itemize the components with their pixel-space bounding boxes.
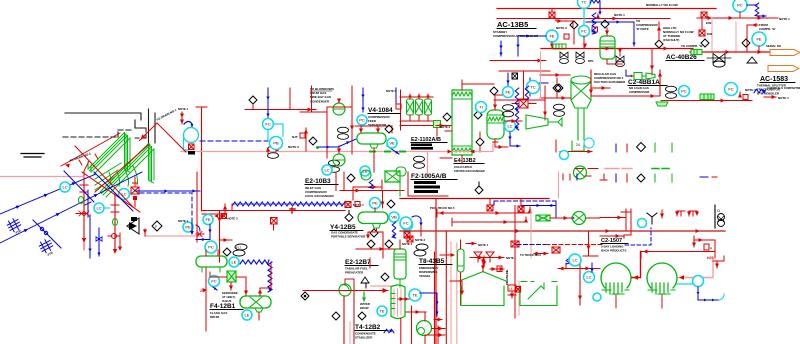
wire red bottom manifold <box>400 120 436 122</box>
svg-text:COOL EXCHANGER: COOL EXCHANGER <box>305 194 334 198</box>
wire red note1 right <box>697 16 790 21</box>
wire blue zig diag <box>387 146 399 154</box>
legend diamond <box>637 143 646 152</box>
pump t8 green circle <box>417 321 432 336</box>
red elbow top right of basins <box>558 263 600 271</box>
red arrow note1 row2 <box>764 95 789 100</box>
vent triangle <box>361 277 369 283</box>
red globe valve small <box>108 234 120 239</box>
blue elbow small <box>184 122 193 128</box>
wire red vessel top from header <box>495 95 512 103</box>
wire blue arrows y147 <box>316 139 356 149</box>
instrument bubble 2nd <box>402 220 413 231</box>
wire red top manifold <box>400 97 436 126</box>
red EH small + note <box>214 214 238 221</box>
legend ticks row <box>600 174 672 182</box>
valve diamond right of V4 <box>385 125 393 133</box>
svg-text:NOTE 3: NOTE 3 <box>556 26 567 30</box>
instrument bubble PC mid <box>503 87 514 98</box>
red arrow x662 <box>660 210 664 218</box>
filter vessel 1 <box>407 94 414 121</box>
label F2-1005A/B <box>411 173 457 180</box>
svg-text:LE: LE <box>245 313 250 318</box>
svg-text:E2-10B3: E2-10B3 <box>305 178 331 185</box>
inline mixer green <box>553 44 566 49</box>
svg-text:AC-13B5: AC-13B5 <box>497 20 528 29</box>
instrument tags stack <box>329 160 340 172</box>
svg-text:PC: PC <box>208 245 214 250</box>
svg-text:FE: FE <box>205 217 210 222</box>
wire red col bottom <box>440 155 462 163</box>
wire red loop y213 <box>437 207 532 217</box>
valve diamond lower <box>476 132 484 152</box>
wire red drop under F4 <box>205 268 207 331</box>
wire red vert x400 <box>400 90 402 130</box>
wire red vert x306 w arrow <box>304 128 308 151</box>
wire red drop x219 <box>218 211 222 263</box>
wire red backslash diagonal long <box>75 146 133 207</box>
red risers t4 <box>344 285 354 344</box>
instrument bubble FE <box>546 30 558 42</box>
wire red vert x545 <box>543 86 547 120</box>
sump pump circle cyan <box>184 128 199 151</box>
legend red bits <box>556 140 592 160</box>
svg-text:FE: FE <box>549 34 554 39</box>
svg-text:E30: E30 <box>706 21 712 25</box>
instrument bubble left-mid <box>203 215 213 225</box>
wire red drop x84 <box>80 172 88 250</box>
svg-text:VE: VE <box>389 141 395 146</box>
label F4-12B1 <box>210 303 243 319</box>
blue elbow x410 <box>412 216 423 226</box>
svg-text:F: F <box>155 225 157 229</box>
instrument bubble LC a <box>60 182 70 192</box>
svg-text:H20: H20 <box>707 256 713 260</box>
green circle top <box>361 170 371 180</box>
tank sphere 2 <box>647 263 677 308</box>
svg-text:STABILIZER: STABILIZER <box>355 336 373 340</box>
basin 2 walls <box>520 282 557 306</box>
vessel kerosene drum w X <box>240 296 271 320</box>
instrument bubble LC under B <box>322 165 332 175</box>
instrument bubble TI <box>476 102 487 113</box>
svg-text:PE: PE <box>185 225 191 230</box>
butterfly valve pair <box>560 52 595 64</box>
svg-text:TO TRUCK NO.2: TO TRUCK NO.2 <box>520 253 541 257</box>
svg-text:NOTE 1: NOTE 1 <box>779 17 790 21</box>
green pump ellipse a <box>79 197 84 204</box>
wire blue from PC <box>747 3 766 18</box>
label C2-1507 <box>601 238 628 253</box>
wire red lower nozzle <box>540 96 571 100</box>
blue dashed loop <box>625 228 651 245</box>
wire pink long line y151 <box>181 142 498 176</box>
svg-text:LC: LC <box>62 185 67 190</box>
cyan bubble x575 <box>569 254 581 266</box>
svg-text:LE: LE <box>232 260 237 265</box>
wire red header y198 <box>400 198 549 200</box>
wire blue drop x363 <box>361 88 364 112</box>
instrument bubble TE t4 <box>377 306 387 316</box>
green arrow water draw <box>360 284 370 310</box>
wire blue signal from TC <box>590 0 602 15</box>
wire blue zig col2 <box>525 86 529 100</box>
label V4-1084 <box>368 107 400 127</box>
off-page connector orange 2 <box>768 66 799 72</box>
svg-text:TC: TC <box>530 85 535 90</box>
vessel Y4-12B5 <box>358 208 388 228</box>
instrument bubble LB <box>360 166 370 176</box>
svg-text:F4-12B1: F4-12B1 <box>210 303 236 310</box>
valve diamond above drum <box>601 20 609 28</box>
black control valve filled <box>127 218 139 234</box>
wire pink stub y176 <box>0 176 84 178</box>
wire blue dashed y244 <box>517 244 604 246</box>
instrument tags x421 <box>414 244 428 256</box>
instrument bubble FC <box>579 26 590 37</box>
pump circle green right <box>550 212 600 225</box>
red vent stack <box>178 107 189 124</box>
svg-text:C2-4BB1A: C2-4BB1A <box>628 79 660 86</box>
wire blue dashed y201 <box>494 201 556 206</box>
blue tick f4 <box>213 287 217 290</box>
green pump ellipse b <box>113 219 118 226</box>
svg-text:FC: FC <box>728 87 733 92</box>
svg-text:NOTE 3: NOTE 3 <box>288 145 299 149</box>
red LEO box <box>508 285 516 298</box>
wire red y71 <box>499 70 550 72</box>
wire red drum outlet <box>495 139 508 149</box>
red sample brackets <box>675 211 699 216</box>
red arrows to truck <box>520 252 548 258</box>
cyan bubble x589 <box>584 272 595 283</box>
svg-text:F2-1005A/B: F2-1005A/B <box>411 173 447 180</box>
instrument tags pair <box>414 156 425 168</box>
svg-text:FC: FC <box>403 221 408 226</box>
wire blue corner branch <box>33 220 61 248</box>
red EH tracer boxes under header <box>487 199 524 213</box>
basin 1 walls <box>461 286 504 306</box>
wire red rack vert x460 <box>435 252 461 344</box>
wire blue signal left of drum <box>592 13 596 34</box>
wire blue zig x371 <box>369 180 373 188</box>
vessel V4-1084 drum <box>357 133 386 172</box>
svg-text:TO DRAIN NO.1: TO DRAIN NO.1 <box>156 108 178 122</box>
svg-text:VESSEL: VESSEL <box>419 274 431 278</box>
wire red y217 stub <box>600 216 626 220</box>
red jog under header2 <box>556 19 573 28</box>
wire pink rack vert x450 <box>450 242 452 344</box>
trench channel 3 partial <box>95 163 121 190</box>
text block F2 (solid bars) <box>414 181 440 193</box>
column E4-13B2 <box>452 90 472 155</box>
wire blue tag elbow <box>626 70 633 77</box>
valve diamond mid2 <box>474 111 482 119</box>
svg-text:T8-43B5: T8-43B5 <box>419 258 445 265</box>
text block regular gas compressor <box>594 72 626 84</box>
reducer cone green <box>526 115 562 129</box>
svg-text:LC: LC <box>507 124 512 129</box>
red X-box above vessel <box>512 99 536 108</box>
svg-text:TI: TI <box>479 105 483 110</box>
wire red vert x515 w 3C0 <box>511 206 519 319</box>
wire blue drop x268 <box>266 88 269 118</box>
off-page connector orange <box>766 44 800 56</box>
legend blue tick <box>615 144 617 152</box>
svg-text:PORTABLE SEPARATOR: PORTABLE SEPARATOR <box>331 235 366 239</box>
instrument bubble LC mid <box>505 121 516 132</box>
wire red cooler header y48 <box>541 47 620 51</box>
svg-text:NOTE 3: NOTE 3 <box>228 217 239 221</box>
wire red y187 <box>353 180 382 191</box>
svg-text:E30: E30 <box>707 32 713 36</box>
instrument tags pair 2 <box>666 86 677 98</box>
wire blue backslash diagonals <box>64 171 133 211</box>
label E4-13B2 <box>454 158 486 173</box>
blue zig x568 <box>566 258 570 264</box>
wire red return y210 <box>202 208 345 213</box>
wire blue zig t4 <box>384 329 394 333</box>
basin 1 roof <box>459 258 506 282</box>
triangle vent <box>747 57 757 63</box>
wire blue manifold left <box>499 34 546 56</box>
label AC-13B5 <box>493 20 539 38</box>
instrument tags pair <box>554 104 565 116</box>
blue drain tag 2 <box>38 238 54 257</box>
instrument tags under PB <box>268 146 279 158</box>
svg-text:LC: LC <box>324 168 329 173</box>
red EH box chain end <box>345 202 364 208</box>
wire red loop y222 <box>452 217 528 226</box>
svg-text:FC: FC <box>265 122 270 127</box>
instrument tags FL2 <box>233 244 247 256</box>
wire red row2 <box>661 99 752 103</box>
wire blue from LC <box>508 132 520 148</box>
wire red long vertical x202 <box>196 107 220 211</box>
instrument bubble LC c <box>119 189 130 200</box>
wire blue chain from LE <box>240 260 272 292</box>
label T4-12B2 <box>355 324 388 340</box>
exchanger E2-10B3 circle B <box>300 86 354 166</box>
wire red vertical drops <box>702 12 740 52</box>
wire pink feed y286 <box>371 285 392 287</box>
wire red main y290 <box>303 288 388 293</box>
trench channel 2 (green isometric) <box>100 144 154 198</box>
svg-text:COMPRESSOR: COMPRESSOR <box>629 90 649 94</box>
wire pink vert x531 <box>530 209 532 258</box>
valve diamond left of Y4 <box>345 211 353 222</box>
svg-text:TE: TE <box>379 309 384 314</box>
filter vessel 2 <box>416 94 423 121</box>
svg-text:NOTE 2: NOTE 2 <box>402 242 413 246</box>
svg-text:NORMALLY NO FLOW: NORMALLY NO FLOW <box>646 3 678 7</box>
svg-text:NJT: NJT <box>292 135 298 139</box>
top connections E2-12B4 <box>336 172 404 208</box>
svg-text:TE: TE <box>412 293 417 298</box>
pump circle green e27 <box>339 284 351 296</box>
red tag 2-0 <box>200 288 207 293</box>
legend green ticks <box>655 143 672 152</box>
text chemicals compartment <box>767 86 800 90</box>
wire red vert x421 <box>420 226 422 236</box>
valve diamond top x351 <box>347 174 355 182</box>
svg-text:DRAW: DRAW <box>360 306 369 310</box>
red tick marks on pink line <box>266 147 276 155</box>
red drop into basin1 <box>450 281 464 295</box>
colour ticks top right <box>563 174 591 180</box>
wire red manifold y100 <box>494 99 545 101</box>
valve diamond open mid <box>152 221 162 231</box>
svg-text:PICK TRUCK NO.5: PICK TRUCK NO.5 <box>430 206 455 210</box>
instrument bubble FE right <box>752 32 766 52</box>
vessel suction scrubber tower <box>571 76 591 140</box>
red EH box under pump <box>189 144 195 150</box>
note1 arrow row <box>613 13 626 21</box>
label underline AC40B26 <box>666 60 704 62</box>
instrument bubble PE <box>178 219 193 232</box>
wire red drop to cooler line <box>550 36 587 48</box>
cyan tubing loop <box>268 124 283 140</box>
svg-text:4YR: 4YR <box>47 250 55 257</box>
svg-text:G: G <box>717 208 720 213</box>
cyan link to red drop <box>104 207 110 209</box>
svg-text:NOTE 1: NOTE 1 <box>614 13 625 17</box>
valve diamond right <box>742 39 750 47</box>
instrument bubble PROB <box>270 137 283 150</box>
valve diamond x312 <box>309 137 317 145</box>
ground symbol green <box>656 101 668 107</box>
wire blue drop from FE <box>196 225 212 242</box>
wire blue t8 <box>420 293 442 322</box>
red X-box 2nd <box>516 287 521 293</box>
red EH note2 right <box>402 232 413 246</box>
red drain line V <box>140 123 182 147</box>
red piping t8 pump <box>398 297 445 344</box>
instrument bubble LE drum2 <box>242 310 252 320</box>
red piping under Y4 <box>366 229 383 258</box>
red riser right of drum2 <box>258 262 271 296</box>
wire blue chain y204 <box>232 202 345 206</box>
wire red header2 y18 <box>497 18 670 20</box>
exchanger E2-10B3 circle A <box>327 99 352 116</box>
svg-text:(FAN SHUT): (FAN SHUT) <box>663 38 679 42</box>
red feed into pot <box>440 253 455 257</box>
wire red manifold over vessel <box>355 126 392 133</box>
wire blue vertical x88 <box>85 190 91 217</box>
svg-text:LC: LC <box>96 206 101 211</box>
vessel E2-12B7 tube <box>394 240 406 287</box>
green control valve box <box>227 271 236 290</box>
column T4-12B2 (green w pink trays) <box>391 285 405 319</box>
svg-text:T4-12B2: T4-12B2 <box>355 324 381 331</box>
red funnel valves <box>474 252 494 262</box>
instrument bubble near V4 <box>357 115 367 125</box>
red arrow up x598 <box>596 14 600 19</box>
legend green chair <box>572 138 594 151</box>
label Y4-12B5 <box>330 224 366 239</box>
wire pink vert x519 <box>518 281 520 315</box>
black tag EXD <box>131 217 137 221</box>
wire red right edge bits <box>386 88 401 109</box>
red X-box x270 <box>271 218 278 231</box>
svg-text:PC: PC <box>681 89 687 94</box>
svg-text:RACK PRODUCTS: RACK PRODUCTS <box>601 249 626 253</box>
PSV red symbol <box>131 177 139 207</box>
wire red recycle U frame <box>589 70 662 98</box>
inline mixer green left <box>691 50 702 55</box>
wire red tower outlet <box>591 86 610 90</box>
svg-text:NOTE 3: NOTE 3 <box>386 89 397 93</box>
wire blue zig col1 <box>515 88 519 130</box>
wire red drop x115 <box>111 194 119 254</box>
svg-text:DPL: DPL <box>588 59 594 63</box>
wire blue dashed y141 <box>200 140 268 142</box>
instrument bubble left-mid2 <box>205 241 217 253</box>
black meter vertical <box>715 205 725 228</box>
instrument bubble f4 b <box>209 276 220 287</box>
svg-text:FE: FE <box>505 90 510 95</box>
trench outlet curves green <box>109 166 138 186</box>
tank sphere 1 <box>601 263 631 308</box>
label AC-1583 <box>757 76 795 96</box>
green stub left margin <box>399 180 401 196</box>
wire blue zig under VB <box>392 222 396 238</box>
trench channel 1 (green isometric) <box>88 133 130 175</box>
drop valve w bowtie <box>616 49 625 67</box>
wire blue drop x99 <box>96 228 102 256</box>
wire red vert x440 <box>435 199 437 344</box>
red box EH <box>564 34 569 39</box>
cyan bubble x406 <box>400 217 412 229</box>
svg-text:PREHEATER: PREHEATER <box>345 271 364 275</box>
cyan bubble x642 <box>638 219 647 228</box>
svg-text:LC: LC <box>586 275 591 280</box>
red piping f4 <box>210 272 248 295</box>
wire red riser from header <box>650 49 654 76</box>
wire red main line y52 <box>690 50 770 54</box>
svg-text:AC-40B26: AC-40B26 <box>666 54 697 61</box>
svg-text:DRAINLINE: DRAINLINE <box>505 270 509 285</box>
svg-text:FC: FC <box>581 29 586 34</box>
svg-text:E2-12B7: E2-12B7 <box>345 259 371 266</box>
red box E30 lower <box>699 30 713 36</box>
red vert x580 <box>578 265 582 305</box>
black flag x512 <box>512 73 518 79</box>
valve diamond x559 <box>555 84 563 92</box>
svg-text:COMPR. ’B’: COMPR. ’B’ <box>759 27 776 31</box>
svg-text:SUCTION SCRUBBER: SUCTION SCRUBBER <box>594 80 626 84</box>
svg-text:CROSS EXCHANGER: CROSS EXCHANGER <box>454 169 486 173</box>
dike wall dashed <box>63 130 132 137</box>
inline strainer green <box>536 215 550 221</box>
red box with cross <box>701 12 712 25</box>
red valve pair on drop <box>76 211 89 216</box>
svg-text:PB: PB <box>273 141 279 146</box>
wire blue row y22 <box>586 20 636 46</box>
valve diamond <box>570 21 578 29</box>
instrument bubble TC mid <box>527 81 540 94</box>
instrument bubble VE <box>387 138 397 148</box>
text kerosene note <box>222 291 238 303</box>
instrument bubble LC b <box>94 203 104 213</box>
dike wall outline black <box>65 109 155 146</box>
wire red drop x120 short <box>118 233 122 251</box>
red line y249 under Y4 <box>356 247 396 251</box>
red piping right drop <box>692 236 715 258</box>
valve diamond e27 <box>381 273 389 281</box>
wire pink tank2 inlet <box>678 258 713 280</box>
instrument bubble row2 <box>725 83 738 96</box>
